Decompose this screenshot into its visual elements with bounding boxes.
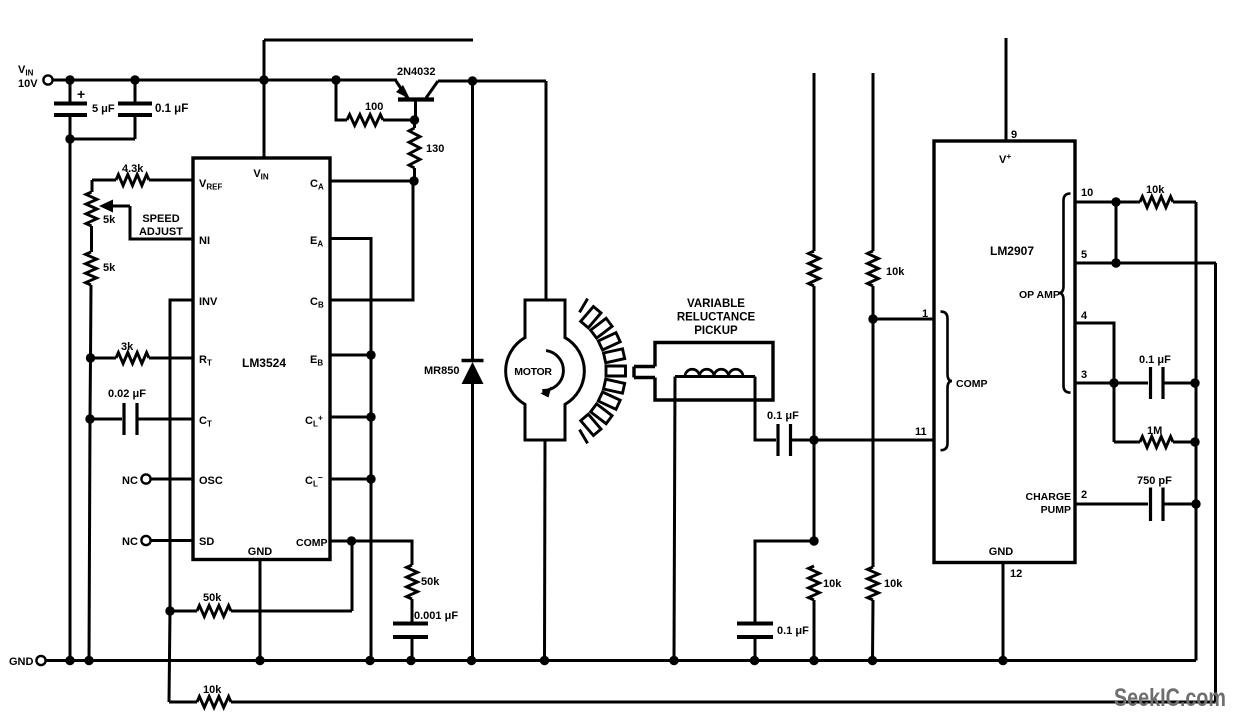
svg-text:3: 3: [1081, 369, 1087, 381]
svg-text:MOTOR: MOTOR: [514, 366, 552, 378]
wire diode column top: [471, 81, 474, 359]
label 130: [426, 143, 444, 155]
svg-text:SeekIC.com: SeekIC.com: [1114, 684, 1226, 712]
resistor R7 50k vertical: [407, 565, 418, 599]
wire pin 5: [1075, 262, 1216, 265]
junction 1M right node: [1190, 437, 1199, 446]
svg-text:OSC: OSC: [199, 475, 223, 487]
svg-text:0.001 μF: 0.001 μF: [414, 610, 458, 622]
resistor R9 10k upper-left vertical: [809, 73, 820, 541]
wire pin10 to pin5 link: [1115, 202, 1118, 263]
junction bypass node: [809, 536, 818, 545]
label 10k R10: [823, 578, 842, 590]
junction R9 at pin11 wire: [809, 435, 818, 444]
pin label COMP: [296, 537, 328, 549]
junction CT node: [85, 414, 94, 423]
svg-text:GND: GND: [248, 546, 273, 558]
wire ground rail: [46, 659, 1197, 662]
wire INV column to feedback rail: [169, 611, 170, 702]
junction R10 on ground rail: [809, 656, 818, 665]
capacitor C4 0.001uF: [393, 599, 428, 661]
pin label CT: [199, 415, 212, 429]
wire top branch: [264, 39, 473, 42]
label 10k feedback: [203, 684, 222, 696]
junction C1 on ground rail: [65, 656, 74, 665]
capacitor C7 0.1uF: [1151, 367, 1196, 399]
resistor R12 10k lower-right vertical: [868, 567, 879, 661]
svg-text:5k: 5k: [103, 214, 116, 226]
junction motor on ground rail: [540, 656, 549, 665]
junction capacitor bottom: [65, 134, 74, 143]
wire right vertical from 10k: [1195, 202, 1198, 661]
svg-text:0.1 μF: 0.1 μF: [777, 625, 809, 637]
pin label 5: [1081, 249, 1087, 261]
resistor R14 1M: [1114, 437, 1195, 448]
transistor Q1 2N4032: [396, 81, 438, 120]
junction CL+: [366, 412, 375, 421]
svg-text:5: 5: [1081, 249, 1087, 261]
label 750pF: [1137, 475, 1172, 487]
svg-text:PUMP: PUMP: [1041, 504, 1071, 516]
junction pin3 node: [1109, 378, 1118, 387]
wire capacitor bottoms: [70, 138, 135, 141]
resistor R10 10k lower-left vertical: [809, 566, 820, 661]
junction base node: [410, 115, 419, 124]
svg-text:1M: 1M: [1147, 425, 1162, 437]
label 0.001uF: [414, 610, 458, 622]
label LM2907: [990, 244, 1034, 258]
svg-text:3k: 3k: [121, 341, 134, 353]
pin label CL+: [305, 413, 323, 429]
wire pin3 to 1M: [1113, 383, 1116, 442]
node VIN input terminal: [43, 75, 52, 84]
junction diode on ground rail: [467, 656, 476, 665]
svg-text:2: 2: [1081, 489, 1087, 501]
junction CA node: [409, 176, 418, 185]
label 10k R12: [884, 578, 903, 590]
label 2N4032: [397, 66, 436, 78]
junction pot column on ground rail: [84, 656, 93, 665]
svg-text:10V: 10V: [18, 78, 38, 90]
svg-text:0.1 μF: 0.1 μF: [1139, 354, 1171, 366]
wire coupling cap to pin 11: [791, 439, 935, 442]
label SPEED ADJUST: [139, 213, 183, 238]
junction pickup on ground rail: [669, 656, 678, 665]
junction 100 resistor at VIN rail: [331, 75, 340, 84]
pin label GND bottom: [248, 546, 273, 558]
svg-text:100: 100: [365, 101, 383, 113]
label VIN 10V: [18, 64, 38, 90]
wire motor bottom: [543, 440, 547, 661]
wire pickup right to coupling cap: [755, 377, 776, 441]
op-amp U2 LM2907 box: [934, 141, 1075, 563]
svg-text:INV: INV: [199, 296, 218, 308]
svg-text:NC: NC: [122, 475, 138, 487]
pin label VREF: [199, 178, 222, 192]
wire VIN pin vertical: [263, 40, 266, 158]
label 0.1uF C7: [1139, 354, 1171, 366]
svg-text:RELUCTANCE: RELUCTANCE: [677, 312, 756, 324]
pin label 2: [1081, 489, 1087, 501]
pin label OSC: [199, 475, 223, 487]
capacitor C6 0.1uF bypass: [737, 541, 814, 661]
pin label CA: [310, 178, 324, 192]
pin label VIN top: [253, 168, 269, 182]
svg-text:750 pF: 750 pF: [1137, 475, 1172, 487]
wire CL+ pin: [330, 416, 371, 419]
label NC OSC: [122, 475, 138, 487]
capacitor C3 0.02uF: [90, 403, 193, 435]
pin label 12: [1010, 568, 1022, 580]
label 50k horizontal: [203, 592, 222, 604]
label GND terminal: [9, 656, 34, 668]
toothed rotor wheel: [580, 299, 626, 444]
junction C7 right node: [1190, 378, 1199, 387]
svg-text:5k: 5k: [103, 262, 116, 274]
wire CA pin: [330, 180, 414, 183]
junction pin10 node: [1111, 197, 1120, 206]
wire pot to 5k resistor: [90, 226, 93, 252]
junction on VIN rail at C1: [65, 75, 74, 84]
svg-text:COMP: COMP: [956, 378, 988, 390]
pin label INV: [199, 296, 218, 308]
svg-text:GND: GND: [989, 546, 1014, 558]
pin label EB: [310, 354, 323, 368]
label 0.1uF bypass: [777, 625, 809, 637]
wire 5k to 3k junction: [89, 285, 93, 358]
svg-text:GND: GND: [9, 656, 34, 668]
label 0.1uF: [155, 103, 188, 115]
junction CL-: [366, 474, 375, 483]
wire CL- pin: [330, 478, 371, 481]
wire pot column to ground rail: [89, 419, 90, 661]
wire pin 10: [1075, 201, 1140, 204]
label OP AMP: [1019, 289, 1060, 301]
svg-text:COMP: COMP: [296, 537, 328, 549]
svg-text:0.02 μF: 0.02 μF: [108, 388, 146, 400]
label 0.02uF: [108, 388, 146, 400]
resistor R13 10k: [1140, 197, 1196, 208]
capacitor C5 0.1uF coupling: [778, 424, 791, 456]
wire Vref corner down to pot: [91, 180, 94, 192]
junction pin1 node: [868, 314, 877, 323]
label MOTOR: [514, 366, 552, 378]
label 1M: [1147, 425, 1162, 437]
capacitor C8 750pF: [1151, 488, 1197, 522]
capacitor C2 0.1uF: [118, 80, 152, 139]
junction COMP node: [347, 536, 356, 545]
junction E line on ground rail: [365, 656, 374, 665]
svg-text:CHARGE: CHARGE: [1025, 491, 1071, 503]
wire left vertical to ground rail: [69, 139, 72, 661]
svg-text:9: 9: [1011, 129, 1017, 141]
svg-text:50k: 50k: [421, 576, 440, 588]
pickup pole tab: [634, 367, 655, 378]
svg-text:10k: 10k: [823, 578, 842, 590]
svg-text:10: 10: [1081, 187, 1093, 199]
svg-text:11: 11: [915, 426, 927, 438]
junction 0.001uF on ground rail: [406, 656, 415, 665]
wire pin 2: [1075, 503, 1148, 506]
pickup housing box: [655, 343, 773, 401]
wire pin 12 vertical: [1002, 563, 1005, 661]
pin label 3: [1081, 369, 1087, 381]
svg-text:SD: SD: [199, 536, 214, 548]
junction pin 12 on ground rail: [998, 656, 1007, 665]
wire COMP pin: [330, 541, 412, 565]
node NC circle OSC: [141, 474, 150, 483]
pin label 1: [922, 308, 928, 320]
pin label RT: [199, 354, 212, 368]
wire pin 4: [1075, 323, 1114, 383]
motor M1: [506, 300, 585, 440]
pin label CL-: [305, 473, 323, 489]
svg-text:MR850: MR850: [424, 365, 459, 377]
label 5k pot: [103, 214, 116, 226]
inductor L1 pickup coil: [675, 369, 755, 376]
resistor R3 5k: [86, 252, 97, 285]
label MR850: [424, 365, 459, 377]
junction bypass cap on ground rail: [750, 656, 759, 665]
svg-text:NC: NC: [122, 536, 138, 548]
wire pin 3: [1075, 382, 1148, 385]
label 50k vertical: [421, 576, 440, 588]
svg-text:12: 12: [1010, 568, 1022, 580]
wire INV stub: [170, 300, 193, 611]
svg-text:OP AMP: OP AMP: [1019, 289, 1060, 301]
svg-text:SPEED: SPEED: [142, 213, 179, 225]
label COMP comparator: [956, 378, 988, 390]
svg-text:VARIABLE: VARIABLE: [687, 298, 745, 310]
resistor R5 100: [336, 80, 414, 126]
wire OSC stub: [151, 478, 194, 481]
junction diode node: [468, 76, 477, 85]
svg-text:130: 130: [426, 143, 444, 155]
svg-text:10k: 10k: [1146, 184, 1165, 196]
svg-text:PICKUP: PICKUP: [694, 325, 738, 337]
wire motor top: [545, 81, 548, 300]
resistor R6 130: [409, 120, 420, 181]
label 5uF: [92, 103, 115, 115]
resistor R1 4.3k: [92, 175, 193, 186]
label 0.1uF coupling: [767, 410, 799, 422]
wire EB pin: [330, 354, 371, 357]
label VARIABLE RELUCTANCE PICKUP: [677, 298, 756, 337]
wire SD stub: [151, 539, 194, 542]
pin label SD: [199, 536, 214, 548]
label LM3524: [242, 356, 286, 370]
resistor R11 10k upper-right vertical: [868, 73, 879, 567]
wire emitter from VIN rail: [388, 79, 397, 82]
svg-text:LM3524: LM3524: [242, 356, 286, 370]
label 5k: [103, 262, 116, 274]
svg-text:0.1 μF: 0.1 μF: [155, 103, 188, 115]
svg-text:+: +: [77, 86, 85, 102]
wire EA pin: [330, 239, 371, 661]
pin label 4: [1081, 310, 1088, 322]
label 4.3k: [122, 163, 144, 175]
wire VIN rail: [53, 79, 396, 82]
wire pot column to CT junction: [89, 358, 93, 419]
junction EB: [366, 350, 375, 359]
label 100: [365, 101, 383, 113]
junction pin5 node: [1111, 258, 1120, 267]
wire pin 9 vertical: [1005, 38, 1008, 141]
junction VIN pin on rail: [259, 75, 268, 84]
wire GND pin vertical: [259, 560, 262, 661]
pin label EA: [310, 235, 323, 249]
junction GND pin on ground rail: [255, 656, 264, 665]
svg-text:1: 1: [922, 308, 928, 320]
label GND 2907: [989, 546, 1014, 558]
svg-text:50k: 50k: [203, 592, 222, 604]
resistor R4 3k: [91, 353, 194, 364]
label 10k R13: [1146, 184, 1165, 196]
resistor R8 50k horizontal: [197, 606, 231, 617]
watermark SeekIC.com: [1114, 684, 1226, 712]
svg-text:4.3k: 4.3k: [122, 163, 144, 175]
junction 3k node: [86, 353, 95, 362]
comp brace: [941, 312, 953, 451]
label 10k R11: [886, 266, 905, 278]
pin label 11: [915, 426, 927, 438]
svg-text:0.1 μF: 0.1 μF: [767, 410, 799, 422]
wire 50k horizontal to COMP: [170, 541, 352, 611]
op amp brace: [1059, 194, 1071, 393]
svg-text:NI: NI: [199, 235, 210, 247]
svg-text:ADJUST: ADJUST: [139, 226, 183, 238]
pot wiper arrow: [99, 200, 130, 213]
wire collector rail: [438, 80, 546, 83]
ground terminal: [36, 656, 45, 665]
label NC SD: [122, 536, 138, 548]
svg-text:LM2907: LM2907: [990, 244, 1034, 258]
label CHARGE PUMP: [1025, 491, 1071, 516]
wire wiper to NI: [130, 206, 193, 239]
motor rotation arrow: [541, 351, 564, 398]
svg-text:4: 4: [1081, 310, 1088, 322]
capacitor C1 5uF: [54, 80, 87, 139]
wire feedback rail: [169, 263, 1216, 702]
pin label CB: [310, 296, 324, 310]
junction R12 on ground rail: [868, 656, 877, 665]
wire pickup left to ground rail: [674, 377, 675, 661]
diode D1 MR850: [462, 361, 484, 661]
svg-text:2N4032: 2N4032: [397, 66, 436, 78]
potentiometer R2 5k: [86, 192, 97, 226]
svg-text:10k: 10k: [884, 578, 903, 590]
junction INV 50k node: [165, 606, 174, 615]
svg-text:10k: 10k: [886, 266, 905, 278]
wire CB pin: [330, 181, 413, 300]
junction 750pF right node: [1191, 499, 1200, 508]
pin label 9: [1011, 129, 1017, 141]
label 3k: [121, 341, 134, 353]
pin label 10: [1081, 187, 1093, 199]
resistor R15 10k feedback: [197, 697, 231, 708]
svg-text:5 μF: 5 μF: [92, 103, 115, 115]
pin label NI: [199, 235, 210, 247]
junction on VIN rail at C2: [130, 75, 139, 84]
wire pin 1: [873, 318, 934, 321]
svg-text:10k: 10k: [203, 684, 222, 696]
op-amp U1 LM3524 box: [193, 158, 330, 560]
node NC circle SD: [141, 536, 150, 545]
label V+: [999, 151, 1011, 166]
